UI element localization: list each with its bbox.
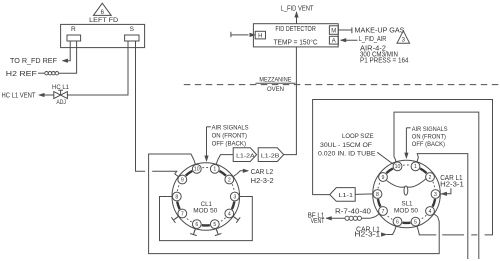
arrow TO R_FD REF: [62, 59, 67, 63]
wire FID to column tags: [284, 47, 297, 155]
svg-text:2: 2: [228, 177, 231, 183]
wire coil to SL1 port 7: [362, 217, 376, 219]
svg-text:3: 3: [434, 192, 437, 198]
R electrode box: [67, 35, 81, 41]
wire tag L1-1 to SL1 port 8: [355, 193, 368, 195]
svg-text:1: 1: [213, 167, 216, 173]
svg-text:SL1: SL1: [401, 201, 413, 208]
FID detector box: [253, 24, 338, 47]
svg-text:6: 6: [396, 219, 399, 225]
wire FID vent: [296, 12, 298, 24]
svg-text:AIR SIGNALS: AIR SIGNALS: [212, 125, 249, 132]
svg-text:R-7-40-40: R-7-40-40: [335, 209, 371, 216]
A input wire: [341, 39, 358, 41]
plug on port 7: [173, 216, 178, 220]
svg-text:30UL - 15CM OF: 30UL - 15CM OF: [320, 142, 372, 149]
svg-text:5: 5: [213, 222, 216, 228]
wire CL1 port 1 to tag L1-2A: [218, 155, 234, 160]
H input box: [255, 31, 265, 39]
restrictor coil H2 REF: [45, 72, 48, 75]
plug on port 4: [233, 216, 238, 220]
sample loop rect: SL1 port 1: [417, 154, 468, 259]
wire R pin to R_FD REF arrow: [67, 41, 71, 61]
triangle callout 3: [397, 31, 410, 43]
svg-text:L_FID_AIR: L_FID_AIR: [359, 36, 387, 43]
column loop CL1 ports 8-3 (rectangle): [160, 197, 253, 241]
tag L1-1: [330, 188, 356, 202]
svg-text:AIR SIGNALS: AIR SIGNALS: [412, 126, 448, 133]
svg-text:MOD 50: MOD 50: [394, 208, 419, 215]
svg-text:3: 3: [233, 194, 236, 200]
svg-text:2: 2: [429, 175, 432, 181]
valve CL1 port 10: [194, 160, 196, 165]
needle valve HC L1: [54, 92, 68, 99]
svg-text:HC L1 VENT: HC L1 VENT: [2, 93, 37, 100]
wire coil to R pin 2: [59, 41, 77, 73]
left FD detector box: [61, 24, 145, 47]
valve SL1 port 4: [434, 214, 438, 217]
svg-text:HC L1: HC L1: [52, 85, 70, 91]
valve SL1 port 9: [379, 173, 388, 182]
valve SL1 port 7: [375, 214, 379, 217]
valve SL1 port 8: [368, 193, 373, 195]
valve CL1 body (outer circle): [172, 163, 240, 231]
svg-text:TO R_FD REF: TO R_FD REF: [10, 58, 57, 65]
wire S pin 2 down to CL1 port 9: [136, 41, 146, 171]
air signals pointer CL1: [207, 126, 211, 128]
wire CL1 port 2 to CAR L2 arrow: [237, 171, 244, 174]
wire valve to S pin 1: [67, 41, 128, 95]
plug on port 6: [193, 228, 195, 234]
svg-text:FID DETECTOR: FID DETECTOR: [275, 26, 315, 33]
svg-text:L_FID VENT: L_FID VENT: [281, 5, 315, 12]
valve CL1 port 4: [233, 216, 237, 219]
svg-text:8: 8: [376, 192, 379, 198]
valve SL1 port 6: [395, 226, 397, 231]
svg-text:H2-3-1: H2-3-1: [440, 182, 464, 189]
svg-text:9: 9: [382, 175, 385, 181]
svg-text:LOOP SIZE: LOOP SIZE: [342, 133, 374, 140]
A input box: [329, 36, 338, 44]
oven boundary dashed line: [184, 84, 500, 86]
svg-text:8: 8: [175, 194, 178, 200]
svg-text:1: 1: [414, 164, 417, 170]
tag L1-2B: [258, 148, 284, 162]
wire to CL1 port 9 (after crossover gap): [152, 171, 177, 174]
svg-text:OFF (BACK): OFF (BACK): [412, 141, 445, 148]
mezzanine underline: [256, 82, 296, 84]
svg-text:0.020 IN. ID TUBE: 0.020 IN. ID TUBE: [318, 150, 376, 157]
svg-text:OFF (BACK): OFF (BACK): [212, 140, 246, 147]
valve CL1 port 7: [175, 216, 179, 219]
svg-text:4: 4: [429, 209, 432, 215]
tag L1-2A: [233, 148, 256, 162]
svg-text:A: A: [332, 39, 336, 45]
wire H2 REF to coil: [38, 72, 45, 74]
valve CL1 port 1: [216, 160, 218, 165]
valve SL1 rotor connections (solid = front): [420, 168, 427, 173]
wire CL1 port 10 down-loop to SL1 port 4: [149, 154, 440, 254]
plug on port 5: [216, 228, 218, 234]
arrow into H box: [250, 33, 256, 37]
svg-text:H2-3-1: H2-3-1: [354, 231, 380, 238]
sample loop rect: SL1 port 10: [394, 112, 479, 259]
svg-text:L1-2B: L1-2B: [261, 153, 280, 159]
svg-text:S: S: [130, 26, 135, 33]
svg-text:MOD 50: MOD 50: [193, 207, 218, 214]
inner loop lens: [404, 186, 408, 195]
svg-text:4: 4: [228, 211, 231, 217]
svg-text:9: 9: [181, 177, 184, 183]
valve SL1 port 3: [440, 193, 445, 195]
svg-text:H: H: [258, 33, 262, 39]
wire vent arrow to coil: [326, 217, 345, 219]
svg-text:7: 7: [181, 211, 184, 217]
valve SL1 port 10: [395, 157, 397, 162]
svg-text:MAKE-UP GAS: MAKE-UP GAS: [355, 27, 405, 34]
valve CL1 port 9: [175, 174, 179, 177]
svg-text:M: M: [331, 28, 336, 34]
valve SL1 port 5: [417, 226, 419, 231]
inner sample loop curve port 2 to center: [407, 178, 426, 187]
arrow into A box: [341, 38, 347, 42]
svg-text:ON (FRONT): ON (FRONT): [412, 133, 446, 140]
FID vent arrow: [295, 12, 299, 17]
restrictor coil R-7-40-40: [345, 216, 349, 220]
M output box: [329, 26, 338, 35]
H input wire with end bar: [230, 32, 232, 37]
valve SL1 rotor connections (dashed = back): [403, 164, 410, 166]
S electrode box: [125, 35, 139, 41]
svg-text:VENT: VENT: [311, 218, 325, 225]
svg-text:TEMP = 150°C: TEMP = 150°C: [274, 38, 318, 46]
valve CL1 port 5: [216, 228, 218, 233]
svg-text:5: 5: [414, 219, 417, 225]
svg-text:H2-3-2: H2-3-2: [251, 178, 274, 185]
svg-text:R: R: [71, 26, 76, 33]
valve CL1 port 3: [239, 196, 244, 198]
loop size pointer line: [377, 152, 393, 164]
valve CL1 port 2: [233, 174, 237, 177]
svg-text:10: 10: [194, 167, 200, 173]
svg-text:P1 PRESS = 164: P1 PRESS = 164: [360, 58, 409, 65]
svg-text:CAR L2: CAR L2: [251, 169, 274, 176]
svg-text:6: 6: [195, 222, 198, 228]
arrow HC L1 VENT: [39, 93, 45, 97]
valve SL1 port 2: [426, 173, 435, 182]
valve CL1 port 6: [194, 228, 196, 233]
triangle callout 6: [93, 3, 111, 15]
valve CL1 port 8: [167, 196, 172, 198]
svg-text:ON (FRONT): ON (FRONT): [212, 132, 247, 139]
svg-text:H2 REF: H2 REF: [6, 71, 37, 78]
svg-text:10: 10: [395, 164, 401, 170]
svg-text:LEFT FD: LEFT FD: [89, 17, 118, 24]
valve SL1 port 1: [417, 157, 419, 162]
valve CL1 rotor connections (solid = front): [219, 171, 226, 176]
valve CL1 rotor connections (dashed = back): [202, 166, 209, 168]
inner sample loop curve port 9 to center: [387, 181, 405, 188]
arrow CAR L1 to SL1 port 6: [381, 233, 387, 237]
svg-text:OVEN: OVEN: [267, 86, 284, 93]
arrow label to SL1 port 3: [446, 188, 451, 194]
arrow BF L1 VENT: [326, 217, 332, 221]
svg-text:L1-1: L1-1: [339, 193, 354, 199]
svg-text:L1-2A: L1-2A: [236, 153, 255, 159]
svg-text:7: 7: [382, 209, 385, 215]
svg-text:ADJ: ADJ: [56, 100, 66, 106]
wire vent arrow to valve HC L1: [39, 94, 54, 96]
svg-text:MEZZANINE: MEZZANINE: [259, 77, 291, 84]
air signals pointer SL1: [406, 127, 410, 129]
M wire to MAKE-UP GAS with end bar: [338, 29, 352, 31]
valve SL1 body (outer circle): [373, 160, 441, 228]
big oven loop: SL1 port 5 - L1-1 - port 8: [418, 231, 436, 235]
